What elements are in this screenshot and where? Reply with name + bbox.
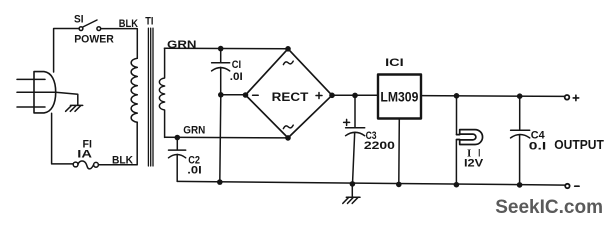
C3 polarity plus [344, 119, 350, 125]
node bridge bottom vertex [285, 135, 291, 141]
wire bottom rail [177, 181, 565, 185]
lamp I1 wire upper [456, 96, 458, 135]
node top rail / C1 [218, 46, 224, 52]
regulator IC1 LM309 [378, 75, 421, 119]
svg-text:OUTPUT: OUTPUT [554, 137, 604, 152]
svg-text:POWER: POWER [74, 33, 114, 45]
wire C1 junction to bridge minus [221, 94, 246, 96]
capacitor C3 [346, 95, 365, 183]
node lamp top [454, 93, 460, 99]
ground (plug) [66, 105, 83, 111]
output terminal plus [565, 95, 570, 100]
wire plug middle to ground [56, 92, 78, 105]
lamp I1 [457, 130, 483, 145]
node IC1 ground pin bottom [396, 182, 402, 188]
transformer T1 primary winding [131, 58, 137, 122]
svg-text:RECT: RECT [272, 92, 309, 104]
node bridge top vertex [285, 46, 291, 52]
wire bridge plus to IC1 [332, 94, 378, 96]
svg-text:TI: TI [145, 15, 153, 27]
svg-text:ICI: ICI [385, 57, 404, 69]
wire fuse to transformer (BLK) [98, 122, 137, 165]
node GRN / C2 junction [175, 135, 181, 141]
bridge rectifier RECT [246, 49, 333, 138]
wire secondary top GRN rail [164, 47, 288, 50]
node bridge left vertex [243, 92, 249, 98]
lamp I1 wire lower [455, 140, 457, 185]
ground (main) [343, 184, 360, 204]
node C4 bottom [517, 182, 523, 188]
svg-text:BLK: BLK [119, 18, 138, 30]
plug prong top [17, 78, 45, 80]
capacitor C2 [169, 138, 186, 182]
wire plug bottom down to fuse [52, 113, 73, 164]
node C1 / minus junction [218, 92, 224, 98]
svg-text:0.I: 0.I [529, 141, 546, 153]
svg-text:C4: C4 [531, 129, 546, 141]
wire negative rail from C1 junction down [220, 95, 221, 182]
node C4 top [517, 93, 523, 99]
svg-text:GRN: GRN [167, 39, 197, 51]
plug prong bottom [17, 106, 45, 108]
bridge plus sign [316, 93, 322, 99]
node lamp bottom [454, 182, 460, 188]
svg-text:SeekIC.com: SeekIC.com [495, 196, 603, 218]
svg-text:BLK: BLK [112, 155, 133, 167]
node C3 top [352, 93, 358, 99]
svg-text:.0I: .0I [230, 71, 243, 83]
bridge minus sign [253, 94, 259, 96]
wire secondary bottom GRN rail [165, 136, 288, 139]
wire switch to transformer (BLK) [101, 29, 138, 59]
svg-text:I2V: I2V [464, 158, 484, 170]
fuse F1 [73, 162, 78, 167]
svg-text:GRN: GRN [183, 124, 205, 136]
svg-text:LM309: LM309 [380, 88, 418, 104]
capacitor C4 [511, 96, 530, 185]
wire IC1 ground pin [398, 119, 401, 185]
svg-text:CI: CI [232, 59, 241, 71]
ac plug [34, 72, 56, 113]
capacitor C1 [212, 49, 230, 95]
svg-text:IA: IA [77, 148, 92, 160]
svg-text:.0I: .0I [187, 164, 201, 176]
bridge tilde top [283, 61, 293, 64]
svg-text:2200: 2200 [364, 140, 395, 152]
plug prong middle [17, 91, 56, 93]
output terminal minus [565, 184, 569, 188]
wire IC1 output to terminal [421, 95, 564, 98]
node bridge right vertex [329, 93, 335, 99]
svg-text:SI: SI [74, 14, 84, 26]
bridge tilde bottom [283, 125, 293, 128]
node ground / C3 bottom [350, 181, 356, 187]
wire plug top to switch S1 [54, 29, 80, 73]
transformer T1 core [148, 28, 153, 166]
switch S1 [79, 27, 83, 31]
node negative rail / C1 line [217, 179, 223, 185]
transformer T1 secondary winding [159, 48, 164, 137]
